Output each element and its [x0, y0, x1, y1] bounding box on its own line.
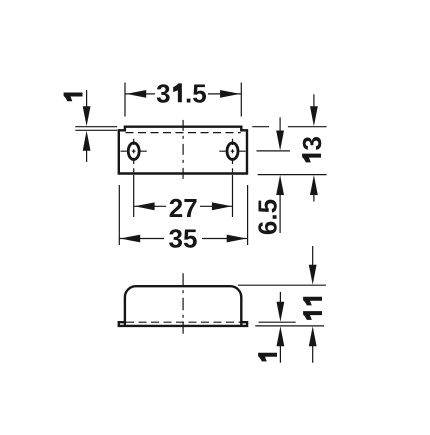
dim 1 (lip) leaders and arrows	[86, 90, 88, 162]
top view vertical centerline	[182, 120, 184, 179]
label 11 (rotated)	[303, 297, 322, 320]
right hole	[227, 143, 238, 160]
dim 35 dimension line	[119, 238, 247, 240]
dim 13 leader and arrows	[313, 94, 315, 201]
label 13 (rotated)	[297, 136, 327, 162]
front view flange outline	[119, 322, 247, 326]
dim 6.5 extension line (hole center level)	[257, 150, 291, 152]
dim 27 dimension line	[134, 205, 233, 207]
front view vertical centerline	[182, 273, 184, 334]
svg-text:3: 3	[297, 136, 327, 150]
dim 31.5 left arrow	[126, 90, 146, 98]
svg-text:35: 35	[169, 223, 198, 253]
dim 27 right arrow	[212, 202, 232, 210]
front view hidden edge dashed line	[126, 321, 241, 323]
top view outline (35 x 13 plate with 31.5 lip)	[119, 127, 247, 174]
dim 11 extension line top (dome top level)	[238, 284, 326, 286]
right hole crosshair vertical + 27 extension	[232, 139, 234, 217]
svg-text:6.5: 6.5	[253, 199, 283, 235]
hidden edge dashed line under lip	[126, 132, 241, 134]
dim 6.5 leader and arrows	[279, 117, 281, 233]
dim 11 leader and arrows	[312, 246, 314, 363]
left hole crosshair horizontal	[121, 150, 147, 152]
svg-text:3: 3	[156, 78, 170, 108]
front view dome outline	[125, 286, 241, 326]
dim 31.5 right arrow	[220, 90, 240, 98]
dim 27 left arrow	[135, 202, 155, 210]
dim 1 (flange) leader and arrows	[279, 292, 281, 363]
svg-text:.5: .5	[185, 78, 207, 108]
dim 31.5 dimension line	[125, 93, 241, 95]
left hole crosshair vertical + 27 extension	[133, 139, 135, 217]
label 31.5	[156, 78, 207, 108]
dim 1 (lip) extension lines	[75, 127, 117, 131]
dim 31.5 extension lines	[125, 83, 241, 117]
dim 13 / 6.5 extension line bottom (plate bottom level)	[258, 174, 327, 176]
dim 35 left arrow	[120, 235, 140, 243]
dim 35 right arrow	[227, 235, 247, 243]
dim 1 (flange) extension line top	[259, 321, 296, 323]
dim 11 / 1 extension line bottom (flange bottom level)	[255, 325, 324, 327]
label 1 (flange, rotated)	[258, 353, 277, 362]
right hole crosshair horizontal	[219, 150, 245, 152]
label 1 (lip, rotated)	[64, 93, 83, 102]
dim 13 extension line top (lip level)	[252, 126, 326, 128]
svg-text:27: 27	[169, 193, 198, 223]
dim 35 extension lines	[119, 185, 247, 245]
left hole	[128, 143, 139, 160]
